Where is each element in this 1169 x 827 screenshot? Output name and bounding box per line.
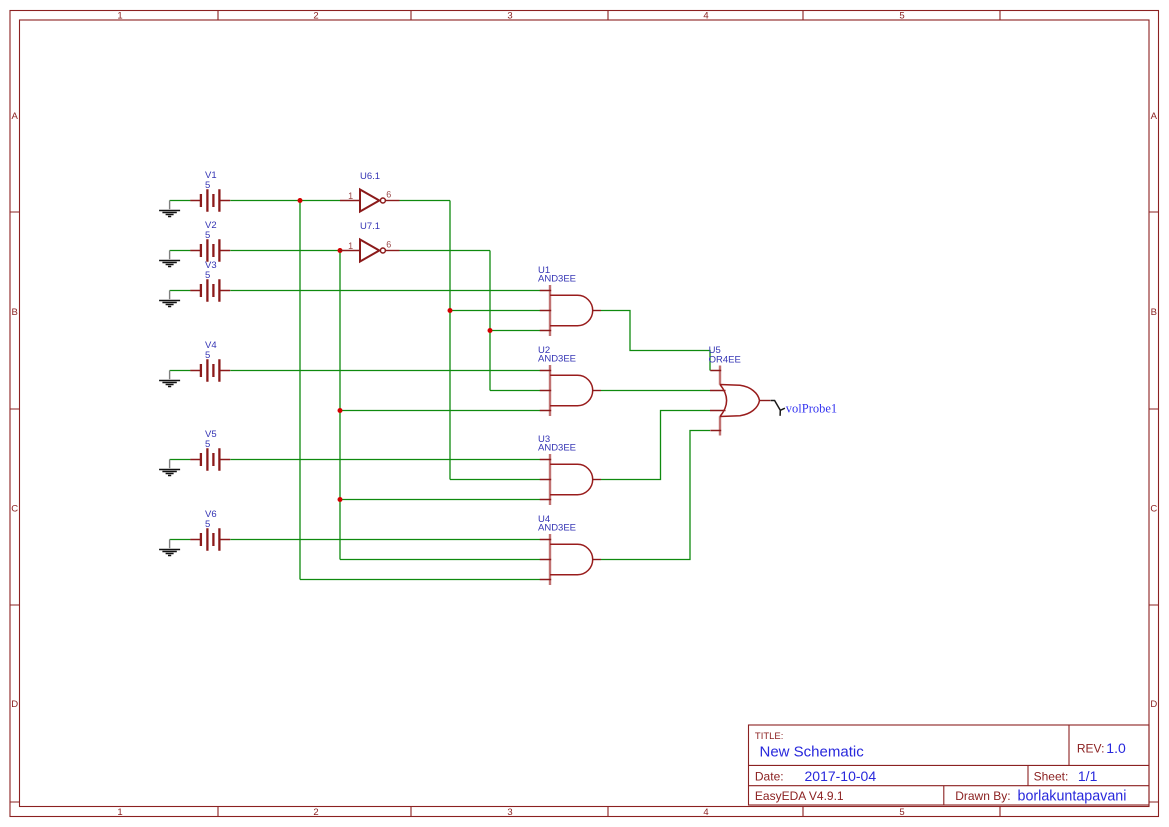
row labels right: [1150, 111, 1157, 710]
svg-text:5: 5: [205, 230, 210, 241]
svg-text:EasyEDA V4.9.1: EasyEDA V4.9.1: [755, 789, 844, 803]
svg-text:1: 1: [117, 807, 122, 818]
frame row ticks right: [1149, 212, 1159, 802]
wire V4 to U2 pin1: [230, 370, 540, 372]
junction V2 tap: [338, 248, 343, 253]
svg-text:U6.1: U6.1: [360, 171, 380, 182]
svg-text:5: 5: [205, 519, 210, 530]
svg-text:Sheet:: Sheet:: [1034, 769, 1069, 783]
frame column ticks bottom: [218, 807, 1000, 817]
svg-text:AND3EE: AND3EE: [538, 442, 576, 453]
wire U3 pin3: [340, 499, 540, 501]
wire U2 pin3: [340, 410, 540, 412]
svg-text:6: 6: [386, 240, 391, 250]
inverter U6.1: [340, 190, 400, 212]
title block: [749, 725, 1150, 805]
wire U3 pin2: [450, 479, 540, 481]
junction dots: [298, 198, 493, 502]
wire U4 pin2: [340, 559, 540, 561]
and-gate U4: [540, 534, 601, 585]
ground GND1: [159, 201, 180, 217]
svg-text:B: B: [1151, 307, 1157, 318]
wire U4 output to OR pin4: [601, 431, 710, 560]
svg-text:A: A: [12, 111, 19, 122]
and-gate U3: [540, 454, 601, 505]
svg-text:1/1: 1/1: [1078, 768, 1098, 784]
junction U3 pin3: [338, 497, 343, 502]
ground GND6: [159, 540, 180, 556]
svg-text:AND3EE: AND3EE: [538, 353, 576, 364]
battery V5: [190, 448, 230, 470]
wire V1 to U6.1 input: [230, 200, 340, 202]
svg-text:D: D: [11, 699, 18, 710]
svg-text:REV:: REV:: [1077, 742, 1105, 756]
and-gate U2: [540, 365, 601, 416]
svg-text:Date:: Date:: [755, 769, 784, 783]
svg-text:A: A: [1151, 111, 1158, 122]
svg-text:Drawn By:: Drawn By:: [955, 789, 1010, 803]
battery V3: [190, 279, 230, 301]
battery V1: [190, 189, 230, 211]
and-gate U1: [540, 285, 601, 336]
column labels top: [117, 11, 904, 22]
svg-text:C: C: [11, 504, 18, 515]
wire V2 to U7.1 input: [230, 250, 340, 252]
wire V3 gnd-batt: [170, 290, 191, 292]
svg-text:5: 5: [205, 439, 210, 450]
wire V3 to U1 pin1: [230, 290, 540, 292]
svg-text:D: D: [1150, 699, 1157, 710]
svg-text:1: 1: [348, 241, 353, 251]
wire V2 gnd-batt: [170, 250, 191, 252]
svg-text:borlakuntapavani: borlakuntapavani: [1018, 789, 1127, 805]
battery V2: [190, 239, 230, 261]
wire U4 pin3: [300, 579, 540, 581]
wire vertical U7.1 out to U2 pin2: [489, 251, 491, 391]
battery V4: [190, 359, 230, 381]
probe volProbe1: [771, 401, 785, 416]
svg-text:6: 6: [386, 190, 391, 200]
wire V5 to U3 pin1: [230, 459, 540, 461]
or-gate U5: [710, 366, 770, 436]
row labels left: [11, 111, 18, 710]
svg-text:2: 2: [313, 807, 318, 818]
wire U1 pin2: [450, 310, 540, 312]
ground GND5: [159, 460, 180, 476]
svg-text:3: 3: [507, 807, 512, 818]
svg-text:AND3EE: AND3EE: [538, 273, 576, 284]
svg-text:New Schematic: New Schematic: [760, 743, 865, 760]
wire U2 output to OR pin2: [601, 390, 710, 392]
svg-text:U7.1: U7.1: [360, 221, 380, 232]
svg-text:5: 5: [899, 807, 904, 818]
svg-text:5: 5: [205, 350, 210, 361]
wire V6 to U4 pin1: [230, 539, 540, 541]
wire U1 pin3: [490, 330, 540, 332]
battery V6: [190, 528, 230, 550]
wire vertical V2 tap to U4 pin2: [339, 251, 341, 560]
svg-text:AND3EE: AND3EE: [538, 522, 576, 533]
svg-text:1: 1: [117, 11, 122, 22]
ground GND2: [159, 251, 180, 267]
column labels bottom: [117, 807, 904, 818]
junction U2 pin3: [338, 408, 343, 413]
svg-text:B: B: [12, 307, 18, 318]
svg-text:2: 2: [313, 11, 318, 22]
junction V1 tap: [298, 198, 303, 203]
svg-text:3: 3: [507, 11, 512, 22]
wire vertical U6.1 out to U3 pin2: [449, 201, 451, 480]
svg-text:C: C: [1150, 504, 1157, 515]
svg-text:4: 4: [703, 807, 708, 818]
wire vertical V1 tap to U4 pin3: [299, 201, 301, 580]
wire V5 gnd-batt: [170, 459, 191, 461]
wire V6 gnd-batt: [170, 539, 191, 541]
svg-text:1.0: 1.0: [1106, 740, 1126, 756]
wire U3 output to OR pin3: [601, 411, 710, 480]
svg-text:TITLE:: TITLE:: [755, 731, 784, 742]
ground GND3: [159, 291, 180, 307]
svg-text:1: 1: [348, 191, 353, 201]
svg-text:5: 5: [899, 11, 904, 22]
svg-text:5: 5: [205, 270, 210, 281]
svg-text:volProbe1: volProbe1: [786, 402, 837, 416]
inverter U7.1: [340, 240, 400, 262]
frame row ticks left: [10, 212, 20, 802]
svg-text:4: 4: [703, 11, 708, 22]
wire U2 pin2: [490, 390, 540, 392]
svg-text:5: 5: [205, 180, 210, 191]
wire U6.1 output: [400, 200, 451, 202]
wire V1 gnd-batt: [170, 200, 191, 202]
wire U7.1 output: [400, 250, 491, 252]
svg-text:2017-10-04: 2017-10-04: [805, 768, 877, 784]
wire U1 output to OR pin1: [601, 311, 710, 371]
junction U1 pin3: [488, 328, 493, 333]
junction U1 pin2: [448, 308, 453, 313]
frame column ticks top: [218, 11, 1000, 21]
ground GND4: [159, 371, 180, 387]
svg-text:OR4EE: OR4EE: [709, 354, 741, 365]
wire V4 gnd-batt: [170, 370, 191, 372]
